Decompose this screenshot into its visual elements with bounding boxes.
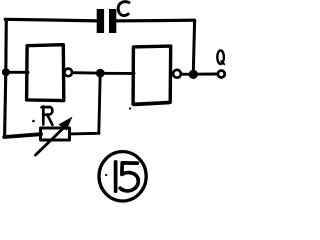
node: input junction xyxy=(2,68,10,76)
wire: gate 2 bubble to output node xyxy=(182,73,190,76)
resistor R body (variable) xyxy=(41,128,70,140)
capacitor C left plate xyxy=(97,9,104,33)
wire: input node to gate 1 xyxy=(6,71,28,74)
wire: bottom rail left segment xyxy=(4,134,41,137)
wire: bottom rail right segment xyxy=(70,132,99,135)
wire: middle node to gate 2 input xyxy=(101,72,135,75)
resistor arrow head xyxy=(59,117,73,131)
wire: gate 1 output to middle node xyxy=(73,71,98,74)
node: output junction xyxy=(189,70,198,79)
label R leading dot xyxy=(32,120,35,123)
capacitor C right plate xyxy=(109,9,116,33)
inverter U1 body xyxy=(27,45,64,101)
wire: right vertical from top rail down to output node xyxy=(193,20,194,73)
wire: middle node down to bottom rail xyxy=(99,73,100,133)
stray ink speck below gate 2 xyxy=(129,107,131,109)
label C xyxy=(118,2,129,16)
inverter U2 bubble xyxy=(173,70,181,78)
terminal Q open circle xyxy=(218,71,225,78)
figure number digit 1 xyxy=(114,162,118,192)
label R xyxy=(42,107,53,125)
figure number digit 5 xyxy=(120,163,138,191)
resistor arrow shaft xyxy=(36,128,65,156)
wire: output node to terminal Q xyxy=(194,73,217,76)
wire: top rail left segment to capacitor xyxy=(5,19,97,21)
node: middle junction xyxy=(96,69,105,78)
figure number circle xyxy=(99,152,146,201)
wire: left vertical (input node rail) xyxy=(5,20,7,137)
label Q xyxy=(217,50,224,64)
inverter U2 body xyxy=(133,46,171,105)
stray ink dot inside circle xyxy=(105,174,107,176)
wire: top rail right segment from capacitor xyxy=(116,19,194,23)
inverter U1 bubble xyxy=(64,69,72,77)
